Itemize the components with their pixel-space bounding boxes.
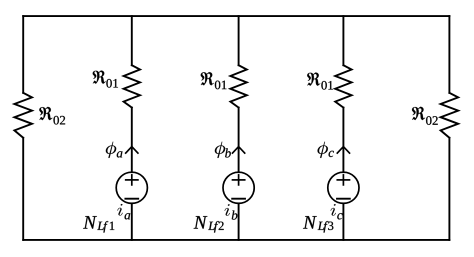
source circle b [223, 172, 254, 203]
resistor R02 right zigzag [441, 93, 459, 138]
source circle c [328, 172, 359, 203]
label i b [225, 204, 238, 219]
arrow head phi c [337, 147, 349, 154]
wire bottom edge [23, 239, 449, 241]
minus sign source a [125, 198, 138, 200]
wire branch c top [342, 16, 344, 65]
wire branch a top [131, 16, 133, 65]
wire right edge upper [448, 16, 450, 93]
label phi a [106, 142, 123, 158]
plus sign source c [337, 175, 349, 185]
minus sign source b [232, 198, 245, 200]
wire branch c middle [342, 108, 344, 173]
wire branch b middle [238, 108, 240, 173]
arrow head phi b [233, 147, 245, 154]
resistor R01 branch c zigzag [335, 65, 351, 107]
resistor R02 left zigzag [14, 93, 32, 138]
source circle a [116, 172, 147, 203]
label phi b [215, 142, 231, 158]
label i c [331, 204, 343, 219]
label N Lf1 [83, 216, 114, 232]
plus sign source a [126, 175, 138, 185]
wire branch b bottom [238, 203, 240, 240]
wire branch b top [238, 16, 240, 65]
wire left edge upper [22, 16, 24, 93]
label R01 branch c [307, 72, 333, 89]
label R01 branch b [201, 72, 227, 89]
wire branch a middle [131, 108, 133, 173]
arrow head phi a [126, 147, 138, 154]
wire left edge lower [22, 138, 24, 240]
plus sign source b [233, 175, 245, 185]
label N Lf3 [303, 216, 333, 232]
label phi c [317, 142, 333, 158]
wire branch a bottom [131, 203, 133, 240]
label R01 branch a [93, 70, 118, 87]
resistor R01 branch a zigzag [124, 65, 140, 107]
label R02 left [39, 107, 65, 125]
label R02 right [412, 107, 438, 125]
wire top edge [23, 15, 449, 17]
wire branch c bottom [342, 203, 344, 240]
resistor R01 branch b zigzag [230, 65, 246, 107]
minus sign source c [337, 198, 350, 200]
label i a [117, 204, 130, 219]
wire right edge lower [448, 138, 450, 240]
label N Lf2 [194, 216, 224, 232]
